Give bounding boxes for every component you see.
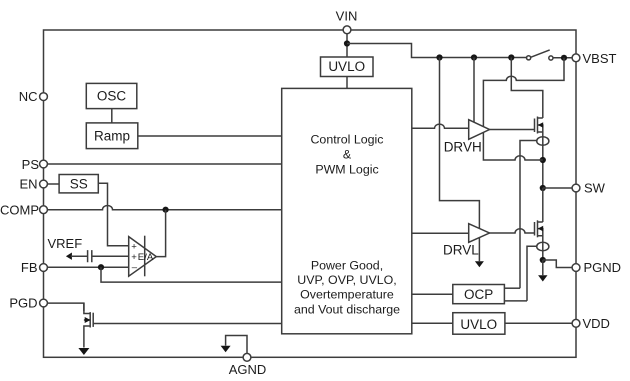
svg-text:Power Good,: Power Good, bbox=[311, 258, 383, 272]
wire: LS drain to SW node bbox=[542, 188, 544, 222]
E/A internal vertical line bbox=[144, 236, 146, 277]
svg-text:COMP: COMP bbox=[0, 202, 39, 217]
node: bus dot B (DRVH supply) bbox=[471, 54, 477, 60]
pin SW bbox=[572, 184, 580, 192]
transistor Q1 (PGD pulldown) bbox=[89, 312, 91, 327]
node: COMP junction dot bbox=[163, 207, 169, 213]
svg-text:&: & bbox=[343, 148, 352, 162]
svg-text:and Vout discharge: and Vout discharge bbox=[294, 302, 400, 316]
label control logic text bbox=[294, 133, 400, 317]
wire: OCP to HS sense bbox=[504, 287, 520, 289]
wire: PGD to Q1 drain bbox=[47, 303, 84, 311]
svg-text:VIN: VIN bbox=[336, 9, 358, 24]
wire: capacitor to E/A middle input bbox=[92, 255, 128, 257]
outer IC boundary box bbox=[44, 30, 577, 357]
transistor Q3 (low side) bbox=[534, 222, 536, 236]
svg-text:FB: FB bbox=[21, 260, 38, 275]
svg-text:Ramp: Ramp bbox=[94, 129, 130, 144]
svg-text:OSC: OSC bbox=[97, 89, 127, 104]
wire: DRVL bottom to ground arrow bbox=[478, 237, 480, 261]
wire: UVLO bottom to VDD pin bbox=[505, 322, 572, 324]
svg-text:–: – bbox=[132, 262, 138, 273]
wire: COMP to control logic (hop over SS wire) bbox=[47, 206, 281, 210]
wire: FB branch to control logic bbox=[101, 267, 282, 282]
wire: LS sense tap to OCP bbox=[527, 246, 537, 301]
wire: VIN branch to top bus bbox=[347, 44, 527, 58]
block OSC bbox=[86, 83, 137, 108]
node: bus dot A (DRVL supply) bbox=[436, 54, 442, 60]
pin VBST bbox=[572, 54, 580, 62]
svg-text:VREF: VREF bbox=[48, 236, 83, 251]
svg-text:VDD: VDD bbox=[583, 316, 610, 331]
node: FB junction dot bbox=[98, 264, 104, 270]
block control logic bbox=[282, 88, 412, 333]
svg-text:AGND: AGND bbox=[229, 362, 267, 377]
wire: EN to SS bbox=[47, 183, 59, 185]
svg-text:PGND: PGND bbox=[584, 260, 622, 275]
node: PGND dot bbox=[540, 257, 546, 263]
wire: PGND node to PGND pin bbox=[543, 260, 572, 268]
op-amp DRVL bbox=[469, 224, 490, 243]
wire: VREF to capacitor bbox=[71, 255, 87, 257]
VREF arrow bbox=[66, 253, 72, 260]
wire: DRVL supply from bus bbox=[440, 58, 480, 229]
pin COMP bbox=[40, 206, 48, 214]
svg-text:VBST: VBST bbox=[583, 51, 617, 66]
pin VDD bbox=[572, 319, 580, 327]
svg-text:Overtemperature: Overtemperature bbox=[300, 288, 394, 302]
pin EN bbox=[40, 180, 48, 188]
current sense ellipse HS bbox=[537, 137, 549, 146]
current sense ellipse LS bbox=[537, 242, 549, 251]
op-amp DRVH bbox=[469, 120, 490, 140]
transistor Q2 (high side) bbox=[534, 119, 536, 133]
block Ramp bbox=[86, 123, 138, 149]
wire: SW node to DRVH bottom (hop over OCP sense) bbox=[483, 132, 542, 160]
wire: control logic to DRVL input bbox=[412, 232, 469, 234]
wire: E/A output to COMP node bbox=[156, 210, 165, 257]
wire: DRVH supply from bus bbox=[473, 58, 475, 123]
wire: HS sense tap to OCP bbox=[520, 141, 537, 289]
ground arrow AGND bbox=[221, 346, 231, 353]
pin NC bbox=[40, 93, 48, 101]
wire: PS to control logic bbox=[47, 163, 281, 165]
wire: SS to E/A + input bbox=[98, 183, 128, 246]
svg-text:PS: PS bbox=[22, 157, 40, 172]
switch S1 (bootstrap switch) bbox=[527, 56, 531, 60]
wire: FB to E/A - input bbox=[47, 266, 128, 268]
block SS bbox=[59, 175, 98, 193]
ground arrow under Q1 bbox=[78, 348, 89, 355]
svg-text:DRVH: DRVH bbox=[444, 139, 482, 154]
pin FB bbox=[40, 264, 48, 272]
svg-text:+: + bbox=[131, 252, 137, 263]
svg-text:PWM Logic: PWM Logic bbox=[315, 162, 378, 176]
wire: HS source to SW node bbox=[542, 160, 544, 188]
svg-text:PGD: PGD bbox=[9, 296, 37, 311]
pin VIN bbox=[343, 26, 351, 34]
svg-text:SW: SW bbox=[584, 181, 606, 196]
wire: PGND node down to arrow bbox=[542, 260, 544, 275]
ground arrow under PGND node bbox=[538, 275, 547, 281]
node: SW dot 2 bbox=[540, 185, 546, 191]
wire: switch to VBST bbox=[553, 57, 572, 59]
wire: VBST node down-left to DRVH top (hop over HS drain line) bbox=[483, 58, 564, 127]
pin PS bbox=[40, 160, 48, 168]
pin AGND bbox=[243, 353, 251, 361]
svg-text:E/A: E/A bbox=[138, 252, 154, 263]
pin PGND bbox=[572, 264, 580, 272]
wire: SW node to SW pin bbox=[543, 187, 572, 189]
label E/A bbox=[131, 241, 154, 273]
node: VIN junction dot bbox=[344, 40, 350, 46]
node: bus dot C (HS drain) bbox=[508, 54, 514, 60]
block OCP bbox=[453, 285, 505, 304]
svg-text:OCP: OCP bbox=[464, 287, 493, 302]
wire: DRVL output to LS gate (hop over OCP sense) bbox=[490, 229, 535, 233]
wire: control logic to DRVH input (hop) bbox=[412, 124, 469, 128]
svg-text:+: + bbox=[131, 241, 137, 252]
node: SW dot 1 bbox=[540, 157, 546, 163]
wire: Ramp to control logic bbox=[138, 135, 282, 137]
svg-text:Control Logic: Control Logic bbox=[310, 133, 383, 147]
wire: UVLO top to control logic bbox=[346, 77, 348, 89]
capacitor C1 bbox=[88, 250, 92, 262]
svg-text:EN: EN bbox=[19, 177, 37, 192]
wire: control logic to OCP bbox=[412, 293, 453, 295]
wire: DRVH output to HS gate bbox=[490, 129, 535, 131]
pin PGD bbox=[40, 299, 48, 307]
svg-text:NC: NC bbox=[19, 89, 38, 104]
op-amp E/A bbox=[129, 237, 157, 277]
ground arrow under DRVL bbox=[475, 261, 484, 267]
wire: HS drain from bus bbox=[511, 58, 543, 119]
svg-text:UVLO: UVLO bbox=[460, 317, 497, 332]
svg-text:UVLO: UVLO bbox=[328, 59, 365, 74]
svg-text:SS: SS bbox=[70, 176, 88, 191]
block UVLO top bbox=[321, 57, 374, 77]
node: VBST junction dot bbox=[561, 55, 567, 61]
wire: control logic to UVLO bottom bbox=[412, 322, 453, 324]
wire: VIN stem down to UVLO bbox=[346, 34, 348, 58]
wire: Q1 gate to control logic bbox=[93, 323, 282, 325]
svg-text:UVP, OVP, UVLO,: UVP, OVP, UVLO, bbox=[297, 273, 396, 287]
wire: OSC to Ramp bbox=[111, 109, 113, 123]
svg-text:DRVL: DRVL bbox=[443, 243, 479, 258]
wire: OCP to LS sense bbox=[504, 300, 527, 302]
block UVLO bottom bbox=[453, 313, 505, 335]
wire: AGND internal bbox=[226, 336, 247, 354]
